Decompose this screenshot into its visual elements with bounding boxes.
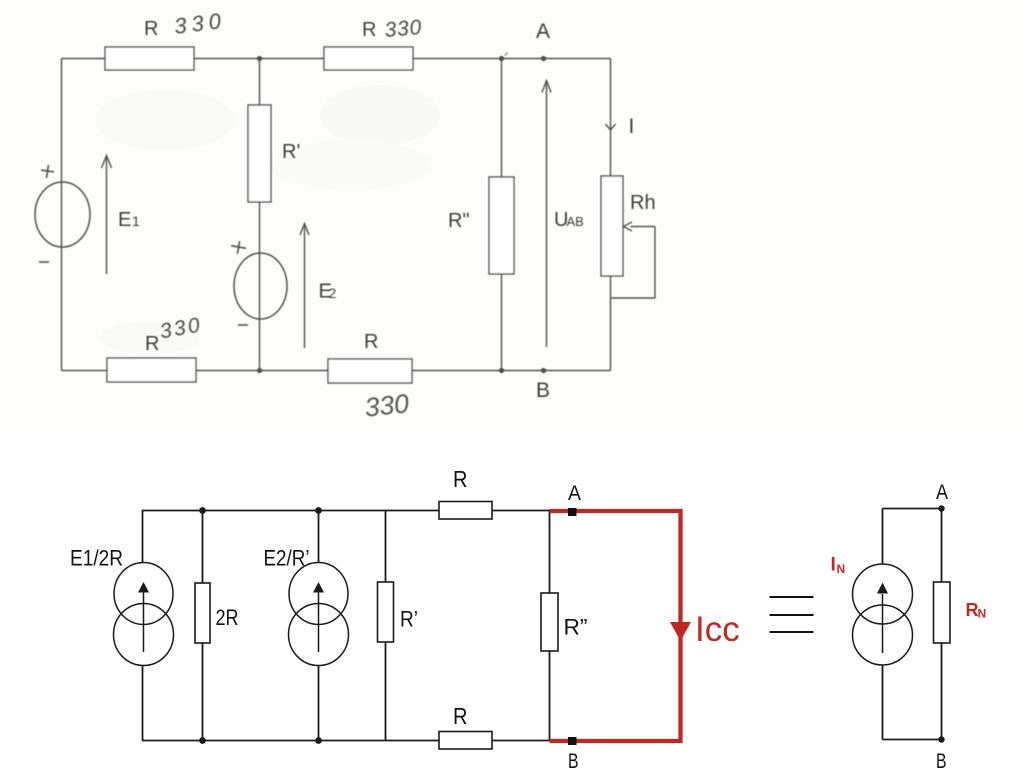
junction dot bottom rail at 2R branch bbox=[199, 737, 206, 744]
current source E1/2R (two circles) bbox=[114, 563, 174, 666]
node A square (bottom circuit) bbox=[568, 508, 577, 516]
svg-text:330: 330 bbox=[363, 388, 410, 422]
resistor RN bbox=[934, 582, 951, 643]
resistor R' (vertical, middle) bbox=[248, 105, 300, 202]
wire A-B vertical branch bbox=[549, 510, 551, 741]
wire right branch lower bbox=[610, 276, 612, 371]
svg-text:E1/2R: E1/2R bbox=[70, 546, 123, 571]
svg-text:2: 2 bbox=[329, 285, 337, 301]
resistor R4 (bottom-right R 330) bbox=[328, 331, 412, 423]
node B dot bbox=[541, 368, 546, 373]
svg-text:R: R bbox=[145, 333, 159, 355]
label E1 bbox=[118, 209, 140, 231]
arrow E2 bbox=[300, 224, 309, 349]
svg-text:330: 330 bbox=[384, 16, 423, 42]
resistor R2 (R 330 top-middle) bbox=[324, 16, 423, 70]
svg-text:E2/R’: E2/R’ bbox=[264, 546, 310, 571]
equivalence sign (triple equals) bbox=[770, 597, 814, 632]
wire R' branch bbox=[385, 510, 387, 741]
svg-text:R”: R” bbox=[564, 615, 588, 640]
wire left branch norton bbox=[882, 509, 884, 740]
wire 2R branch bbox=[202, 510, 204, 741]
junction dot top rail at 2R branch bbox=[199, 507, 206, 514]
svg-text:A: A bbox=[536, 20, 550, 43]
svg-text:R': R' bbox=[282, 141, 300, 163]
red arrowhead Icc bbox=[670, 622, 691, 641]
label RN bbox=[966, 600, 987, 621]
svg-text:I: I bbox=[831, 555, 836, 576]
resistor 2R bbox=[195, 583, 210, 643]
svg-text:1: 1 bbox=[132, 213, 140, 229]
plus sign E2 bbox=[230, 240, 247, 255]
resistor R top series bbox=[439, 502, 492, 520]
wire left branch (E1/2R source) bbox=[142, 510, 144, 741]
svg-text:AB: AB bbox=[567, 214, 584, 229]
minus sign E2 bbox=[238, 324, 248, 326]
svg-text:E: E bbox=[118, 209, 131, 231]
arrow of source E1/2R bbox=[143, 592, 145, 652]
svg-text:R: R bbox=[453, 466, 468, 492]
node B square (bottom circuit) bbox=[568, 737, 577, 745]
source E2 (circle) bbox=[234, 253, 287, 319]
arrow UAB bbox=[542, 81, 551, 348]
node A dot bbox=[541, 56, 546, 61]
wire bottom rail norton bbox=[883, 739, 942, 741]
resistor R' (bottom circuit) bbox=[378, 582, 394, 642]
resistor R bottom series bbox=[439, 732, 492, 750]
svg-text:Rh: Rh bbox=[630, 192, 656, 214]
wire right branch upper bbox=[610, 59, 612, 177]
arrow of source E2/R' bbox=[318, 592, 320, 652]
svg-text:2R: 2R bbox=[216, 605, 239, 630]
svg-text:R: R bbox=[453, 703, 468, 729]
node junction dot (top middle) bbox=[257, 56, 262, 61]
tick mark near node bbox=[505, 53, 508, 56]
wiper arrow of Rh bbox=[631, 226, 656, 228]
svg-text:A: A bbox=[936, 481, 948, 504]
wire top rail norton bbox=[883, 508, 942, 510]
label UAB bbox=[554, 209, 584, 231]
resistor R1 (R 330 top-left) bbox=[105, 8, 227, 70]
svg-text:Icc: Icc bbox=[695, 610, 740, 649]
node junction dot (top R'' branch) bbox=[499, 56, 504, 61]
resistor R'' (bottom circuit) bbox=[541, 593, 558, 651]
node junction dot (bottom middle) bbox=[257, 368, 262, 373]
resistor R3 (bottom-left R 330) bbox=[107, 313, 204, 382]
minus sign E1 bbox=[39, 261, 49, 263]
node A dot norton bbox=[938, 505, 944, 511]
svg-text:R": R" bbox=[448, 210, 470, 232]
source E1 (circle) bbox=[35, 182, 90, 247]
junction dot top rail at E2/R' branch bbox=[315, 507, 322, 514]
arrow E1 bbox=[102, 156, 112, 275]
wire top rail bottom circuit bbox=[142, 510, 550, 512]
svg-text:B: B bbox=[568, 750, 579, 768]
wire top rail bbox=[62, 58, 611, 60]
rheostat Rh bbox=[601, 176, 656, 298]
junction dot bottom rail at E2/R' branch bbox=[315, 737, 322, 744]
current source IN (two circles) bbox=[853, 564, 913, 665]
node B dot norton bbox=[938, 736, 944, 742]
svg-text:R’: R’ bbox=[400, 607, 418, 632]
plus sign E1 bbox=[40, 164, 55, 179]
svg-text:N: N bbox=[978, 607, 987, 621]
svg-text:I: I bbox=[629, 115, 635, 138]
svg-text:A: A bbox=[568, 482, 581, 505]
wire bottom rail bbox=[62, 370, 611, 372]
svg-text:R: R bbox=[144, 18, 158, 40]
current source E2/R' (two circles) bbox=[289, 563, 349, 666]
svg-text:N: N bbox=[837, 562, 846, 576]
label E2 bbox=[319, 281, 337, 303]
node junction dot (bottom R'' branch) bbox=[499, 368, 504, 373]
resistor R'' (vertical) bbox=[448, 177, 514, 274]
svg-text:R: R bbox=[364, 331, 378, 353]
wire middle branch R'/E2 bbox=[259, 59, 261, 371]
wire R'' branch bbox=[501, 59, 503, 371]
wire E2/R' source branch bbox=[318, 510, 320, 741]
wire bottom rail bottom circuit bbox=[142, 740, 550, 742]
svg-text:B: B bbox=[936, 750, 947, 768]
arrow I on right branch bbox=[606, 124, 616, 130]
svg-text:R: R bbox=[362, 19, 376, 41]
arrow of source IN bbox=[882, 594, 884, 653]
wire left branch bbox=[61, 59, 63, 371]
wire right branch norton bbox=[941, 509, 943, 740]
label IN bbox=[831, 555, 846, 577]
red short-circuit loop wire bbox=[550, 511, 681, 741]
svg-text:B: B bbox=[536, 379, 550, 402]
